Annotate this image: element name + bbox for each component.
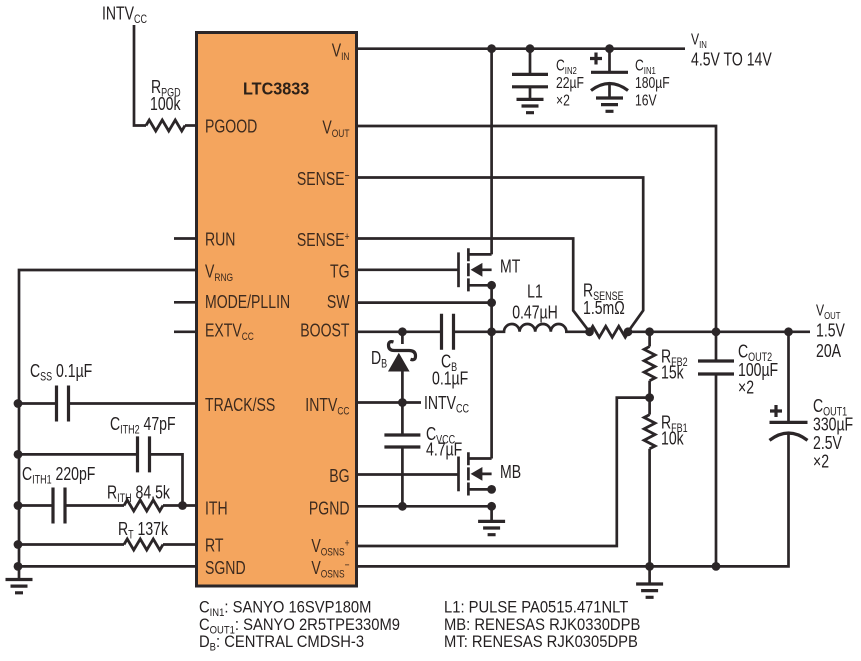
wire CVCC bottom stem <box>401 447 404 506</box>
svg-text:100k: 100k <box>150 94 181 114</box>
svg-text:0.47µH: 0.47µH <box>512 303 558 323</box>
svg-text:TRACK/SS: TRACK/SS <box>205 395 275 415</box>
resistor RFB1 10k <box>644 415 655 449</box>
ground left bus <box>6 580 33 593</box>
node left bus TRACK/SS <box>14 399 23 408</box>
resistor RSENSE 1.5mohm <box>590 326 629 337</box>
svg-text:L1: L1 <box>527 282 543 302</box>
transistor MB <box>459 452 492 495</box>
wire DB cathode stem <box>401 332 404 344</box>
wire MB source to ground <box>490 506 493 521</box>
wire SGND row <box>18 565 197 568</box>
svg-text:1.5V: 1.5V <box>816 321 845 341</box>
wire CIN2 bottom stem <box>529 87 532 100</box>
svg-text:MB: RENESAS RJK0330DPB: MB: RENESAS RJK0330DPB <box>444 616 640 634</box>
svg-text:×2: ×2 <box>813 452 829 472</box>
capacitor COUT2 100uF <box>698 361 734 374</box>
svg-text:180µF: 180µF <box>635 74 670 92</box>
svg-text:2.5V: 2.5V <box>813 433 842 453</box>
capacitor CIN1 180uF polarized <box>591 72 628 90</box>
node RSENSE right <box>624 327 633 336</box>
node INTVCC tap <box>398 398 407 407</box>
node CVCC/PGND <box>398 502 407 511</box>
svg-text:PGOOD: PGOOD <box>205 117 257 137</box>
svg-text:BG: BG <box>329 466 349 486</box>
svg-text:MT: RENESAS RJK0305DPB: MT: RENESAS RJK0305DPB <box>444 633 638 651</box>
node left bus CITH2 <box>14 450 23 459</box>
ground MB <box>478 521 505 534</box>
wire ITH row a <box>18 504 53 507</box>
resistor RT 137k <box>124 539 163 550</box>
wire TG to MT gate <box>357 268 459 271</box>
resistor RITH 84.5k <box>124 500 163 511</box>
wire SENSE+ kelvin <box>357 239 590 332</box>
wire RPGD to PGOOD pin <box>185 124 197 127</box>
wire RFB1 bottom stub <box>648 449 651 567</box>
node RFB2 top <box>645 327 654 336</box>
wire PGND row <box>357 505 492 508</box>
diode DB triangle <box>388 353 410 372</box>
wire TRACK/SS row right <box>69 402 197 405</box>
svg-text:RUN: RUN <box>205 230 235 250</box>
wire CIN1 top stem <box>608 49 611 73</box>
wire BOOST to CB <box>357 330 442 333</box>
wire ground stem bottom <box>648 566 651 584</box>
wire CB to SW node <box>454 330 492 333</box>
capacitor CSS 0.1uF <box>57 386 69 422</box>
wire CIN2 top stem <box>529 49 532 75</box>
wire VRNG to left bus <box>19 270 197 580</box>
node MB source <box>487 485 496 494</box>
svg-text:10k: 10k <box>661 429 684 449</box>
svg-text:0.1µF: 0.1µF <box>432 369 468 389</box>
node left bus RT <box>14 540 23 549</box>
svg-text:4.7µF: 4.7µF <box>426 440 462 460</box>
wire MT source to MB drain <box>490 285 493 458</box>
node VIN/MT <box>487 44 496 53</box>
wire INTVCC pin row <box>357 401 422 404</box>
node SW pin <box>487 298 496 307</box>
svg-text:20A: 20A <box>816 341 841 361</box>
svg-text:RT 137k: RT 137k <box>118 519 169 542</box>
svg-text:CSS 0.1µF: CSS 0.1µF <box>30 361 92 384</box>
wire ITH row c <box>163 504 197 507</box>
plus sign CIN1 <box>590 53 602 65</box>
svg-text:L1: PULSE PA0515.471NLT: L1: PULSE PA0515.471NLT <box>444 599 629 617</box>
capacitor CIN2 22uF <box>512 74 548 86</box>
svg-text:TG: TG <box>330 262 350 282</box>
svg-text:SENSE−: SENSE− <box>297 169 350 189</box>
node left bus ITH <box>14 501 23 510</box>
wire CIN1 bottom stem <box>608 84 611 98</box>
wire RFB1 top stub <box>648 398 651 415</box>
wire MODE/PLLIN stub <box>174 301 197 304</box>
svg-text:RT: RT <box>205 536 223 556</box>
svg-text:22µF: 22µF <box>556 74 584 92</box>
node bottom COUT2 <box>712 562 721 571</box>
wire VOUT row and drop to COUT2 <box>357 126 717 332</box>
node MT source <box>487 281 496 290</box>
node COUT2 top <box>712 327 721 336</box>
resistor RPGD 100k <box>146 120 185 131</box>
svg-text:MT: MT <box>500 257 520 277</box>
wire CVCC top stem <box>401 403 404 436</box>
svg-text:CITH2 47pF: CITH2 47pF <box>110 414 176 437</box>
svg-text:MODE/PLLIN: MODE/PLLIN <box>205 292 290 312</box>
wire SW row <box>357 301 492 304</box>
wire CITH2 row <box>18 453 138 456</box>
wire RFB2 bottom stub <box>648 381 651 398</box>
wire DB anode to INTVCC <box>401 371 404 403</box>
capacitor CITH1 220pF <box>53 488 65 524</box>
svg-text:MB: MB <box>500 462 521 482</box>
node bottom RFB1 <box>645 562 654 571</box>
wire RT row b <box>163 543 197 546</box>
node left bus SGND <box>14 562 23 571</box>
capacitor CVCC 4.7uF <box>384 435 420 447</box>
wire CITH2 to ITH node <box>150 454 183 505</box>
wire RT row a <box>18 543 124 546</box>
capacitor CB 0.1uF <box>442 314 454 350</box>
resistor RFB2 15k <box>644 347 655 381</box>
wire COUT2 top stem <box>715 332 718 361</box>
ground output <box>636 584 663 597</box>
svg-text:4.5V TO 14V: 4.5V TO 14V <box>691 50 772 70</box>
svg-text:PGND: PGND <box>309 499 350 519</box>
wire FB midpoint to VOSNS+ pin <box>357 398 650 546</box>
svg-text:SW: SW <box>327 292 350 312</box>
node RSENSE left <box>585 327 594 336</box>
plus sign COUT1 <box>770 405 782 417</box>
inductor L1 0.47uH <box>492 324 590 332</box>
capacitor COUT1 330uF polarized <box>770 422 808 440</box>
wire VOSNS- bottom row <box>357 434 789 566</box>
transistor MT <box>459 248 492 291</box>
node VIN/CIN2 <box>526 44 535 53</box>
svg-text:15k: 15k <box>661 363 684 383</box>
node SW/L1 <box>487 327 496 336</box>
svg-text:RITH 84.5k: RITH 84.5k <box>107 483 171 506</box>
wire VIN row <box>357 47 686 50</box>
svg-text:330µF: 330µF <box>813 415 853 435</box>
diode DB schottky cathode <box>389 342 416 360</box>
wire TRACK/SS row left <box>18 402 57 405</box>
capacitor CITH2 47pF <box>138 436 150 472</box>
wire COUT2 bottom stem <box>715 374 718 566</box>
wire EXTVCC stub <box>174 330 197 333</box>
ground CIN2 <box>517 99 544 112</box>
svg-text:16V: 16V <box>635 92 657 110</box>
wire RUN stub <box>174 237 197 240</box>
wire BG to MB gate <box>357 473 459 476</box>
svg-text:SENSE+: SENSE+ <box>297 230 350 250</box>
wire SENSE- kelvin <box>357 178 644 332</box>
wire INTVCC drop to RPGD <box>134 25 146 126</box>
ground CIN1 <box>596 98 623 111</box>
node ITH/CITH2 <box>178 501 187 510</box>
wire ITH row b <box>65 504 124 507</box>
node BOOST/DB <box>398 327 407 336</box>
node MB/PGND <box>487 502 496 511</box>
svg-text:×2: ×2 <box>556 92 570 110</box>
svg-text:ITH: ITH <box>205 499 228 519</box>
node VIN/CIN1 <box>605 44 614 53</box>
wire VIN to MT drain <box>490 49 493 255</box>
node COUT1 top <box>784 327 793 336</box>
svg-text:SGND: SGND <box>205 558 246 578</box>
svg-text:1.5mΩ: 1.5mΩ <box>583 298 625 318</box>
svg-text:LTC3833: LTC3833 <box>243 79 309 99</box>
wire RFB2 top stub <box>648 332 651 347</box>
op-amp U1 : IC body LTC3833 <box>197 33 357 587</box>
node FB midpoint <box>645 393 654 402</box>
svg-text:×2: ×2 <box>738 378 754 398</box>
wire output row <box>629 330 811 333</box>
svg-text:BOOST: BOOST <box>300 321 349 341</box>
wire COUT1 top stem <box>787 332 790 423</box>
svg-text:DB: CENTRAL CMDSH-3: DB: CENTRAL CMDSH-3 <box>199 633 364 654</box>
